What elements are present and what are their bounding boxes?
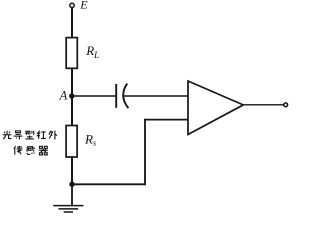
sensor label line1 光导型红外 (3, 131, 57, 140)
wire (72, 183, 146, 185)
wire (71, 68, 73, 125)
svg-text:A: A (59, 88, 68, 102)
wire (144, 119, 146, 185)
wire (71, 157, 73, 184)
外 (49, 131, 57, 140)
红 (37, 131, 45, 139)
capacitor C (116, 84, 128, 109)
output terminal (284, 103, 288, 107)
ground (53, 186, 83, 212)
junction (69, 182, 74, 187)
resistor Rs (66, 126, 77, 158)
型 (25, 131, 34, 139)
wire (144, 119, 188, 121)
wire (124, 95, 189, 97)
光 (3, 131, 12, 139)
感 (27, 146, 35, 154)
terminal E (70, 3, 74, 7)
resistor RL (66, 38, 77, 69)
op-amp U1 (188, 81, 243, 135)
导 (14, 131, 23, 140)
传 (14, 146, 23, 155)
wire (72, 95, 116, 97)
sensor label line2 传感器 (14, 146, 48, 155)
node A (69, 93, 74, 98)
器 (39, 146, 48, 155)
wire (243, 104, 284, 106)
wire (71, 8, 73, 38)
svg-text:E: E (79, 0, 88, 12)
